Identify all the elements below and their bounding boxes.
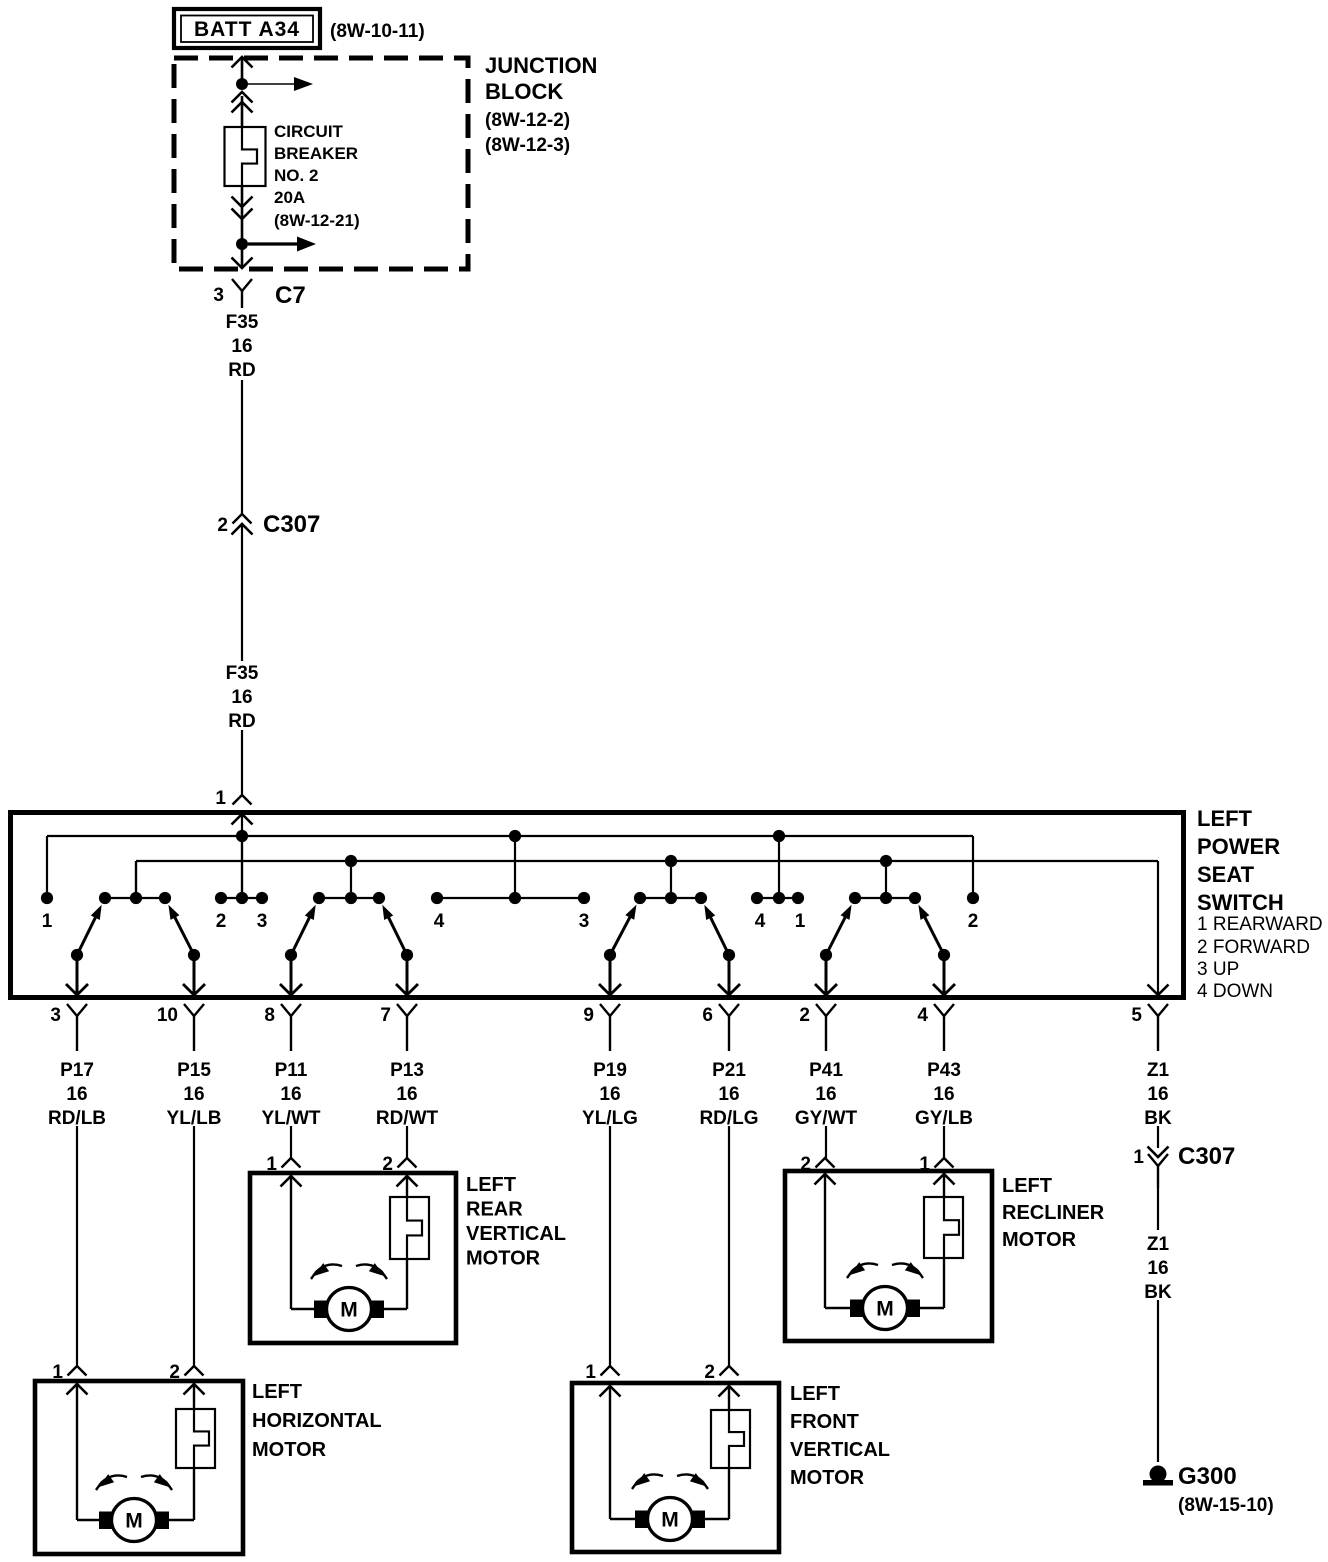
left rear vertical motor motor M bbox=[314, 1288, 384, 1331]
svg-text:LEFT: LEFT bbox=[252, 1381, 302, 1403]
switch output wire bbox=[396, 955, 418, 995]
switch contact 2 right bbox=[967, 892, 979, 932]
svg-text:1: 1 bbox=[1133, 1147, 1144, 1168]
svg-text:YL/WT: YL/WT bbox=[261, 1108, 320, 1129]
svg-text:16: 16 bbox=[231, 336, 252, 357]
junction block outline bbox=[174, 58, 468, 269]
wire bbox=[291, 1176, 315, 1309]
wire label P21 16 RD/LG bbox=[699, 1060, 758, 1129]
left rear vertical motor label bbox=[466, 1174, 566, 1270]
svg-text:3: 3 bbox=[579, 911, 590, 932]
reference (8W-10-11) bbox=[330, 21, 425, 42]
left power seat switch box bbox=[11, 813, 1184, 998]
wire bbox=[1157, 1126, 1159, 1148]
left rear vertical motor pin 2 connector bbox=[382, 1154, 417, 1187]
svg-text:P19: P19 bbox=[593, 1060, 627, 1081]
svg-text:RD/LB: RD/LB bbox=[48, 1108, 106, 1129]
svg-text:16: 16 bbox=[815, 1084, 836, 1105]
left horizontal motor box bbox=[35, 1381, 243, 1554]
switch connector pin 7 bbox=[380, 1004, 417, 1051]
svg-text:BLOCK: BLOCK bbox=[485, 79, 563, 104]
terminal chevron at junction block exit bbox=[232, 258, 253, 269]
svg-text:LEFT: LEFT bbox=[1197, 806, 1253, 831]
left horizontal motor label bbox=[252, 1381, 382, 1461]
wire label P17 16 RD/LB bbox=[48, 1060, 106, 1129]
svg-text:2 FORWARD: 2 FORWARD bbox=[1197, 937, 1310, 958]
switch connector pin 1 entry bbox=[215, 788, 251, 809]
bus junction bbox=[345, 855, 357, 867]
svg-text:C307: C307 bbox=[263, 511, 320, 538]
svg-text:2: 2 bbox=[704, 1362, 715, 1383]
left horizontal motor motor M bbox=[99, 1499, 169, 1542]
wire bbox=[168, 1384, 194, 1520]
svg-text:16: 16 bbox=[183, 1084, 204, 1105]
connector C7 pin 3 bbox=[213, 279, 305, 309]
wire bbox=[609, 1126, 611, 1366]
svg-text:GY/LB: GY/LB bbox=[915, 1108, 973, 1129]
left recliner motor label bbox=[1002, 1175, 1105, 1251]
svg-text:LEFT: LEFT bbox=[466, 1174, 516, 1196]
left horizontal motor thermal protector bbox=[176, 1409, 215, 1468]
wire bbox=[193, 1126, 195, 1366]
svg-text:M: M bbox=[661, 1509, 679, 1532]
terminal chevron inside switch top bbox=[232, 814, 253, 825]
switch contact 1 bbox=[41, 892, 53, 932]
wire bbox=[77, 1384, 100, 1520]
svg-text:F35: F35 bbox=[226, 312, 259, 333]
svg-text:(8W-15-10): (8W-15-10) bbox=[1178, 1495, 1274, 1516]
left horizontal motor rotation arrows bbox=[96, 1474, 172, 1490]
wire bbox=[241, 96, 244, 127]
battery feed box BATT A34 bbox=[174, 9, 320, 48]
bus junction bbox=[509, 830, 521, 842]
svg-text:3: 3 bbox=[257, 911, 268, 932]
switch output wire bbox=[66, 955, 88, 995]
bus wire lower bbox=[136, 861, 1158, 995]
svg-text:1: 1 bbox=[585, 1362, 596, 1383]
circuit breaker CB2 bbox=[225, 127, 266, 186]
switch connector pin 4 bbox=[917, 1004, 954, 1051]
wire bbox=[704, 1386, 729, 1519]
svg-text:YL/LG: YL/LG bbox=[582, 1108, 638, 1129]
svg-text:1 REARWARD: 1 REARWARD bbox=[1197, 914, 1323, 935]
wire bbox=[1157, 1300, 1159, 1462]
svg-text:CIRCUIT: CIRCUIT bbox=[274, 122, 344, 141]
left recliner motor pin 1 connector bbox=[919, 1154, 954, 1185]
svg-text:(8W-10-11): (8W-10-11) bbox=[330, 21, 425, 42]
left recliner motor box bbox=[785, 1171, 992, 1341]
wire bbox=[825, 1126, 827, 1158]
circuit breaker label bbox=[274, 122, 360, 230]
svg-text:FRONT: FRONT bbox=[790, 1411, 859, 1433]
left horizontal motor pin 2 connector bbox=[169, 1362, 204, 1395]
svg-text:16: 16 bbox=[66, 1084, 87, 1105]
switch output wire bbox=[599, 955, 621, 995]
inline connector C307 pin 1 bbox=[1133, 1143, 1235, 1188]
junction block terminal double chevron bbox=[232, 197, 253, 220]
switch legend bbox=[1197, 914, 1323, 1002]
svg-text:P15: P15 bbox=[177, 1060, 211, 1081]
svg-text:GY/WT: GY/WT bbox=[795, 1108, 858, 1129]
switch section rear vertical bbox=[285, 861, 413, 961]
left front vertical motor motor M bbox=[635, 1498, 705, 1541]
bus junction bbox=[665, 855, 677, 867]
left front vertical motor pin 1 connector bbox=[585, 1362, 620, 1397]
left front vertical motor box bbox=[572, 1383, 779, 1552]
node splice with feed arrow bbox=[236, 237, 316, 252]
svg-text:16: 16 bbox=[933, 1084, 954, 1105]
left rear vertical motor thermal protector bbox=[390, 1197, 429, 1259]
switch connector pin 5 bbox=[1131, 1004, 1168, 1051]
wire bbox=[943, 1126, 945, 1158]
svg-text:LEFT: LEFT bbox=[790, 1383, 840, 1405]
svg-text:1: 1 bbox=[919, 1154, 930, 1175]
svg-text:16: 16 bbox=[599, 1084, 620, 1105]
svg-text:C7: C7 bbox=[275, 282, 306, 309]
svg-text:16: 16 bbox=[1147, 1258, 1168, 1279]
svg-text:20A: 20A bbox=[274, 188, 305, 207]
wire bbox=[610, 1386, 636, 1519]
svg-text:LEFT: LEFT bbox=[1002, 1175, 1052, 1197]
svg-text:HORIZONTAL: HORIZONTAL bbox=[252, 1410, 382, 1432]
svg-text:BREAKER: BREAKER bbox=[274, 144, 358, 163]
switch box label bbox=[1197, 806, 1284, 915]
left recliner motor rotation arrows bbox=[847, 1262, 923, 1278]
svg-text:1: 1 bbox=[215, 788, 226, 809]
svg-text:2: 2 bbox=[382, 1154, 393, 1175]
svg-text:REAR: REAR bbox=[466, 1199, 523, 1221]
svg-text:BATT A34: BATT A34 bbox=[194, 18, 300, 41]
svg-text:G300: G300 bbox=[1178, 1463, 1237, 1490]
left recliner motor motor M bbox=[850, 1287, 920, 1330]
switch connector pin 10 bbox=[157, 1004, 204, 1051]
switch connector pin 2 bbox=[799, 1004, 836, 1051]
wire label Z1 16 BK bbox=[1144, 1234, 1172, 1303]
svg-text:(8W-12-2): (8W-12-2) bbox=[485, 110, 570, 131]
svg-text:1: 1 bbox=[795, 911, 806, 932]
svg-text:NO. 2: NO. 2 bbox=[274, 166, 318, 185]
switch section front vertical bbox=[604, 861, 735, 961]
junction block terminal double chevron bbox=[232, 92, 253, 113]
svg-text:MOTOR: MOTOR bbox=[466, 1248, 541, 1270]
junction block label bbox=[485, 53, 597, 156]
svg-text:2: 2 bbox=[169, 1362, 180, 1383]
wire label P19 16 YL/LG bbox=[582, 1060, 638, 1129]
svg-text:P43: P43 bbox=[927, 1060, 961, 1081]
svg-text:RD/LG: RD/LG bbox=[699, 1108, 758, 1129]
svg-text:Z1: Z1 bbox=[1147, 1060, 1170, 1081]
bus junction bbox=[773, 830, 785, 842]
left rear vertical motor box bbox=[250, 1173, 456, 1343]
left recliner motor thermal protector bbox=[924, 1197, 963, 1258]
feed wire into switch bbox=[241, 814, 243, 898]
wire label P43 16 GY/LB bbox=[915, 1060, 973, 1129]
svg-text:2: 2 bbox=[968, 911, 979, 932]
svg-text:4: 4 bbox=[755, 911, 766, 932]
svg-text:BK: BK bbox=[1144, 1282, 1172, 1303]
switch output wire bbox=[718, 955, 740, 995]
svg-text:C307: C307 bbox=[1178, 1143, 1235, 1170]
wire bbox=[290, 1126, 292, 1158]
left front vertical motor pin 2 connector bbox=[704, 1362, 739, 1397]
ground G300 bbox=[1143, 1463, 1274, 1516]
wire bbox=[406, 1126, 408, 1158]
left rear vertical motor rotation arrows bbox=[311, 1263, 387, 1279]
svg-text:P13: P13 bbox=[390, 1060, 424, 1081]
wire label P11 16 YL/WT bbox=[261, 1060, 320, 1129]
svg-text:POWER: POWER bbox=[1197, 834, 1280, 859]
switch connector pin 9 bbox=[583, 1004, 620, 1051]
wire bbox=[919, 1174, 944, 1308]
inline connector C307 pin 2 bbox=[217, 511, 320, 538]
svg-text:16: 16 bbox=[718, 1084, 739, 1105]
svg-text:M: M bbox=[340, 1299, 358, 1322]
svg-text:MOTOR: MOTOR bbox=[252, 1439, 327, 1461]
svg-text:VERTICAL: VERTICAL bbox=[466, 1223, 566, 1245]
wire label P15 16 YL/LB bbox=[167, 1060, 222, 1129]
svg-text:F35: F35 bbox=[226, 663, 259, 684]
svg-text:Z1: Z1 bbox=[1147, 1234, 1170, 1255]
svg-text:3: 3 bbox=[213, 285, 224, 306]
svg-text:(8W-12-21): (8W-12-21) bbox=[274, 211, 360, 230]
svg-text:2: 2 bbox=[216, 911, 227, 932]
svg-text:10: 10 bbox=[157, 1005, 178, 1026]
svg-text:RECLINER: RECLINER bbox=[1002, 1202, 1105, 1224]
switch connector pin 3 bbox=[50, 1004, 87, 1051]
svg-text:4: 4 bbox=[917, 1005, 928, 1026]
wire bbox=[728, 1126, 730, 1366]
switch connector pin 8 bbox=[264, 1004, 301, 1051]
svg-text:16: 16 bbox=[396, 1084, 417, 1105]
left front vertical motor thermal protector bbox=[711, 1410, 750, 1468]
wire bbox=[76, 1126, 78, 1366]
wire label P13 16 RD/WT bbox=[376, 1060, 439, 1129]
wire bbox=[241, 186, 244, 244]
svg-text:RD/WT: RD/WT bbox=[376, 1108, 439, 1129]
svg-text:SEAT: SEAT bbox=[1197, 862, 1255, 887]
wire bbox=[825, 1174, 851, 1308]
bus junction bbox=[880, 855, 892, 867]
svg-text:1: 1 bbox=[52, 1362, 63, 1383]
svg-text:RD: RD bbox=[228, 711, 255, 732]
switch output wire bbox=[815, 955, 837, 995]
switch connector pin 6 bbox=[702, 1004, 739, 1051]
svg-text:2: 2 bbox=[799, 1005, 810, 1026]
svg-text:3: 3 bbox=[50, 1005, 61, 1026]
switch output chevron pin 5 bbox=[1148, 985, 1169, 996]
switch contact group 4-1 bbox=[751, 836, 806, 932]
svg-text:M: M bbox=[125, 1510, 143, 1533]
left recliner motor pin 2 connector bbox=[800, 1154, 835, 1185]
wire bbox=[241, 244, 244, 268]
svg-text:4 DOWN: 4 DOWN bbox=[1197, 981, 1273, 1002]
switch contact group 4-3 bbox=[431, 836, 590, 932]
wire label P41 16 GY/WT bbox=[795, 1060, 858, 1129]
switch section horizontal bbox=[71, 861, 200, 961]
svg-text:MOTOR: MOTOR bbox=[1002, 1229, 1077, 1251]
svg-text:9: 9 bbox=[583, 1005, 594, 1026]
wire bbox=[241, 730, 243, 795]
switch section recliner bbox=[820, 861, 950, 961]
svg-text:2: 2 bbox=[800, 1154, 811, 1175]
svg-text:16: 16 bbox=[280, 1084, 301, 1105]
wire label Z1 16 BK bbox=[1144, 1060, 1172, 1129]
left rear vertical motor pin 1 connector bbox=[266, 1154, 301, 1187]
svg-text:(8W-12-3): (8W-12-3) bbox=[485, 135, 570, 156]
svg-text:3 UP: 3 UP bbox=[1197, 959, 1239, 980]
switch output wire bbox=[933, 955, 955, 995]
svg-text:1: 1 bbox=[42, 911, 53, 932]
wire bbox=[383, 1176, 407, 1309]
svg-text:P41: P41 bbox=[809, 1060, 843, 1081]
svg-text:P11: P11 bbox=[275, 1060, 308, 1081]
node splice with feed arrow bbox=[236, 77, 313, 91]
svg-text:SWITCH: SWITCH bbox=[1197, 890, 1284, 915]
svg-text:5: 5 bbox=[1131, 1005, 1142, 1026]
left horizontal motor pin 1 connector bbox=[52, 1362, 87, 1395]
svg-text:4: 4 bbox=[434, 911, 445, 932]
svg-text:RD: RD bbox=[228, 360, 255, 381]
switch output wire bbox=[280, 955, 302, 995]
svg-text:MOTOR: MOTOR bbox=[790, 1467, 865, 1489]
svg-text:1: 1 bbox=[266, 1154, 277, 1175]
svg-text:VERTICAL: VERTICAL bbox=[790, 1439, 890, 1461]
svg-text:6: 6 bbox=[702, 1005, 713, 1026]
bus wire upper bbox=[47, 836, 973, 898]
svg-text:7: 7 bbox=[380, 1005, 391, 1026]
switch output wire bbox=[183, 955, 205, 995]
terminal chevron at junction block entry bbox=[232, 57, 253, 68]
wire label F35 16 RD bbox=[226, 312, 259, 381]
svg-text:M: M bbox=[876, 1298, 894, 1321]
svg-text:YL/LB: YL/LB bbox=[167, 1108, 222, 1129]
wire bbox=[241, 57, 244, 84]
wire bbox=[1157, 1188, 1159, 1230]
svg-text:P17: P17 bbox=[60, 1060, 94, 1081]
switch contact group 2-3 bbox=[215, 836, 268, 932]
bus junction bbox=[236, 830, 248, 842]
svg-text:16: 16 bbox=[1147, 1084, 1168, 1105]
svg-text:2: 2 bbox=[217, 515, 228, 536]
svg-text:8: 8 bbox=[264, 1005, 275, 1026]
wire bbox=[241, 526, 243, 661]
svg-text:P21: P21 bbox=[712, 1060, 746, 1081]
wire label F35 16 RD bbox=[226, 663, 259, 732]
wire bbox=[241, 380, 243, 514]
left front vertical motor rotation arrows bbox=[632, 1473, 708, 1489]
left front vertical motor label bbox=[790, 1383, 890, 1489]
svg-text:16: 16 bbox=[231, 687, 252, 708]
svg-text:BK: BK bbox=[1144, 1108, 1172, 1129]
svg-text:JUNCTION: JUNCTION bbox=[485, 53, 597, 78]
